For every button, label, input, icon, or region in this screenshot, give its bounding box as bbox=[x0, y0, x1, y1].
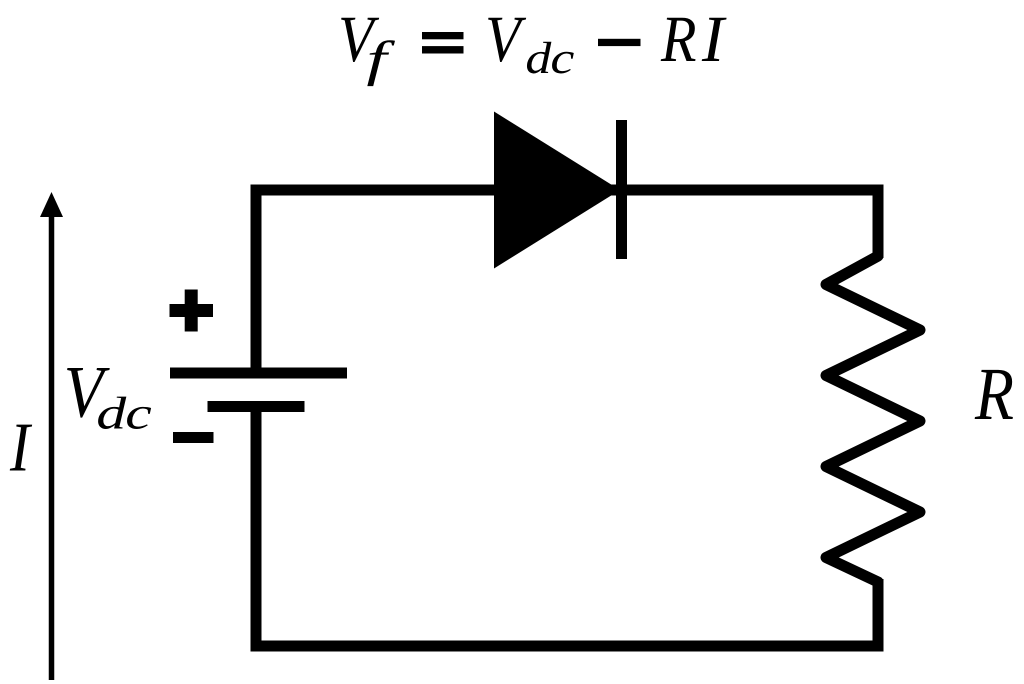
resistor R (zigzag body) bbox=[826, 256, 920, 582]
current arrow I (head) bbox=[40, 192, 63, 217]
battery plus polarity mark bbox=[170, 290, 214, 332]
current arrow I (shaft) bbox=[49, 214, 55, 680]
battery Vdc negative plate (short) bbox=[208, 401, 305, 412]
wire right upper (diode cathode to resistor) bbox=[873, 185, 884, 259]
wire top (source positive rail to diode anode) bbox=[251, 185, 884, 196]
equation minus sign bbox=[598, 39, 641, 46]
label Vdc subscript c bbox=[127, 407, 151, 429]
wire left upper (battery positive to top rail) bbox=[251, 185, 262, 376]
wire right lower (resistor to bottom rail) bbox=[873, 579, 884, 652]
equation equals sign (bottom bar) bbox=[422, 46, 464, 53]
equation I term bbox=[702, 18, 727, 61]
wire left lower (battery negative to bottom rail) bbox=[251, 404, 262, 652]
diode D1 cathode bar bbox=[616, 120, 627, 259]
label Vdc (source) bbox=[67, 368, 110, 418]
label R (resistor) bbox=[975, 370, 1013, 419]
equation Vf term bbox=[341, 18, 379, 62]
wire bottom rail bbox=[251, 641, 884, 652]
equation Vdc subscript d bbox=[527, 42, 551, 74]
diode D1 anode triangle bbox=[494, 112, 620, 269]
battery minus polarity mark bbox=[173, 432, 214, 443]
equation Vf subscript f bbox=[367, 40, 395, 86]
label I (current) bbox=[10, 425, 32, 471]
battery Vdc positive plate (long) bbox=[170, 368, 347, 379]
equation Vdc term bbox=[488, 18, 526, 62]
equation equals sign (top bar) bbox=[422, 32, 464, 39]
equation Vdc subscript c bbox=[552, 52, 574, 74]
label Vdc subscript d bbox=[98, 397, 126, 429]
equation R term bbox=[661, 18, 696, 61]
